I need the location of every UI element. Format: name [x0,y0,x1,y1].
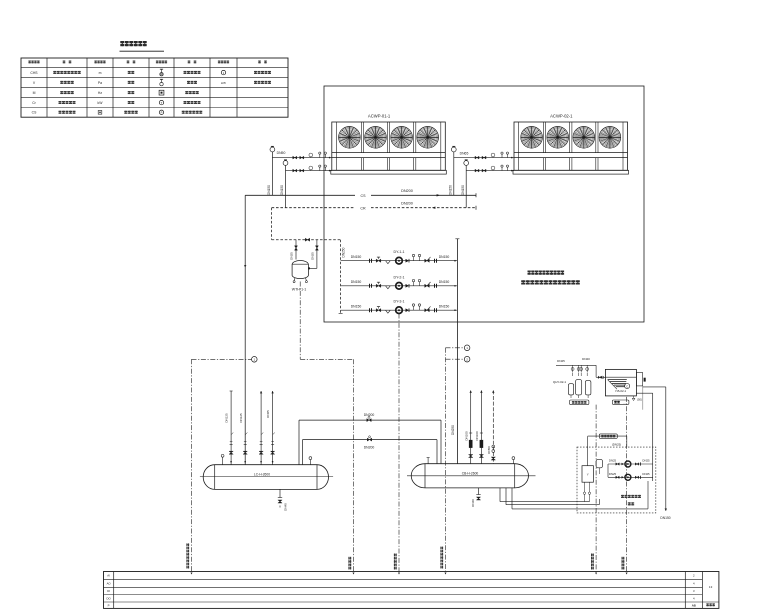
svg-text:DN200: DN200 [364,445,375,449]
tank1 gauge stub right [309,460,311,465]
pump branch DY-3-1 [341,309,458,311]
svg-text:LC-H-2600: LC-H-2600 [254,472,270,476]
makeup pipe 3 from tank2 [511,488,513,509]
pump DY-2-1 [396,283,403,290]
makeup pump BP-2 impeller [625,474,631,480]
pump DY-3-1 discharge fittings [406,308,410,312]
ACWP-02-1 fans [521,127,543,149]
tank1 riser 2 from CS main [243,451,247,454]
svg-text:DN250: DN250 [451,425,455,435]
tank2 vent stub left [427,458,429,464]
roof plant boundary box [324,86,644,322]
ACWP-01-1 fans [339,127,361,149]
air vent V4 unit2 return [465,159,468,161]
svg-text:Pa: Pa [98,81,102,85]
svg-text:DN50: DN50 [487,446,491,454]
ACWP-01-1 base slab [331,170,447,174]
svg-text:DN25: DN25 [557,359,565,363]
svg-text:DN150: DN150 [439,255,450,259]
svg-text:DI: DI [107,589,110,593]
svg-text:AB: AB [692,604,696,608]
svg-text:DN150: DN150 [660,516,670,520]
svg-text:DN150: DN150 [439,305,450,309]
legend header texts [28,61,39,64]
svg-text:DN25: DN25 [642,472,650,476]
tank2 riser 1 motor valve [470,390,472,463]
svg-text:DN150: DN150 [439,280,450,284]
air-cooled chiller ACWP-02-1 frame [514,122,628,170]
svg-text:DN200: DN200 [401,201,413,205]
CS chilled water supply main [245,194,355,196]
makeup pump branch BP-2 [608,476,653,478]
makeup pump unit boundary dotted box [577,447,656,513]
softener control line to strip [595,405,597,572]
svg-text:DN250: DN250 [342,247,346,257]
CR chilled water return main [272,207,355,209]
dosing cylinder in makeup unit [596,459,602,467]
svg-text:Y: Y [587,472,589,476]
svg-text:DN25: DN25 [609,472,617,476]
softener inlet pipe with valve pairs [556,364,596,366]
svg-text:AI: AI [107,574,110,578]
svg-text:LPh: LPh [221,81,227,85]
svg-text:DN25: DN25 [311,252,315,260]
pump group status control line [398,314,400,572]
control drop arrow 6 [626,573,628,575]
softener cylinder 2 [576,380,582,395]
unit2 return branch pipe [466,170,514,172]
pump DY-2-1 discharge fittings [406,284,410,288]
DDC strip columns [113,572,115,609]
unit1 return branch pipe [286,170,332,172]
svg-text:DN150: DN150 [267,185,271,195]
air-cooled chiller ACWP-01-1 frame [332,122,446,170]
tank drain funnel symbol [633,396,635,398]
water level symbol [608,379,627,381]
legend names col6 [184,71,201,74]
pump branch DY-2-1 [341,285,458,287]
expansion tank right nozzle [308,267,310,269]
legend table frame [21,58,288,117]
svg-text:DN65: DN65 [266,410,270,418]
svg-text:DN40: DN40 [284,503,288,511]
wire vent3 drop to CS main [453,152,455,195]
svg-text:DN150: DN150 [351,305,362,309]
svg-text:ACWP-02-1: ACWP-02-1 [550,114,573,119]
pump DY-1-1 [396,257,403,264]
tank overflow grey stub [642,386,644,410]
svg-text:Hz: Hz [98,91,102,95]
svg-text:DN150: DN150 [461,185,465,195]
wire vent2 drop to CR main [285,165,287,207]
tank side panel [636,373,642,386]
expansion tank drain control line to strip [299,282,301,360]
wire vent4 drop to CR main [465,165,467,207]
svg-text:DN125: DN125 [239,413,243,423]
legend symbols col5 [161,69,163,73]
pump suction header [340,240,342,314]
expansion tank legs [293,278,296,281]
tank1 riser 1 [230,391,232,465]
unit1 supply branch pipe [272,157,331,159]
valve on return header [305,238,309,241]
tank name plate [612,400,629,404]
water meter plate [599,434,617,438]
tank1 vent stub left [222,457,224,464]
expansion tank feed pipe 2 [316,240,318,269]
softener to water tank pipe [595,365,597,377]
svg-text:DN150: DN150 [280,185,284,195]
svg-text:CR: CR [360,206,366,210]
control drop arrow 4 [445,573,447,575]
overflow pipe A to drain with arrow [643,386,666,388]
svg-text:DN100: DN100 [464,431,468,441]
float switch in tank [625,383,630,388]
DDC strip outer frame [104,572,719,609]
expansion tank feed pipe 1 [295,240,297,260]
air vent V2 unit1 return [284,159,287,161]
CR drop corner to pump suction [271,208,273,240]
DDC strip rows [104,578,703,580]
svg-text:DN150: DN150 [351,255,362,259]
makeup unit name label [621,495,641,498]
unit2 supply branch pipe [454,157,514,159]
svg-text:kW: kW [98,101,104,105]
svg-text:...: ... [623,402,625,405]
svg-text:CB-H-2600: CB-H-2600 [462,472,479,476]
pump DY-1-1 discharge fittings [406,259,410,263]
bridge pipe upper DN200 [299,419,441,421]
svg-text:DN20: DN20 [582,357,590,361]
pump DY-3-1 [396,307,403,314]
svg-text:DY-2-1: DY-2-1 [393,275,404,279]
makeup pump BP-1 impeller [625,461,631,467]
svg-text:WTH-1-1: WTH-1-1 [292,287,307,291]
air vent V3 unit2 supply [452,145,455,147]
tank1 riser 3 [260,391,262,465]
svg-text:P: P [161,111,163,115]
bridge pipe lower DN200 [303,439,438,441]
pump branch DY-1-1 [341,260,458,262]
svg-text:DN200: DN200 [401,189,413,193]
tank2 axis line [407,475,536,477]
note text line2 [521,280,580,284]
svg-text:CS: CS [32,111,37,115]
svg-text:DN40: DN40 [471,499,475,507]
svg-text:DN50: DN50 [277,151,286,155]
softener name plate [570,400,589,405]
tank2 riser 3 [492,390,494,463]
svg-text:DN100: DN100 [475,431,479,441]
note text line1 [528,271,565,275]
CS riser down to collector tank1 [244,195,246,464]
expansion tank WTH-1-1 [292,260,308,278]
pressure vessel in makeup unit [582,466,593,483]
makeup water tank Y-B-02-1 [605,369,636,396]
tank1 bottom drain valve [279,489,281,497]
svg-text:(DN25): (DN25) [612,443,621,447]
control drop arrow 1 [191,573,193,575]
svg-text:DN125: DN125 [225,413,229,423]
ACWP-02-1 base slab [513,170,629,174]
svg-text:DN25: DN25 [642,459,650,463]
makeup pipe 1 from tank2 [499,488,501,502]
control drop arrow 2 [353,573,355,575]
svg-text:DN25: DN25 [290,252,294,260]
sensor T2 on discharge header [464,345,470,351]
air vent V1 unit1 supply [271,145,274,147]
tank1 axis line [200,476,333,478]
tank outlet pipe B to makeup pumps [636,392,652,394]
softener cylinder 1 [569,384,574,395]
svg-text:C: C [626,384,628,388]
softener tank connection pipes down [570,395,572,398]
svg-text:CS: CS [361,194,367,198]
legend names col8 [254,71,271,74]
temperature sensor T1 on CS riser [252,357,258,363]
collector tank CB-H-2600 shell [411,464,528,488]
pressure vessel drain stubs [584,482,586,492]
makeup pump branch BP-1 [608,463,653,465]
control drop arrow 3 [398,573,400,575]
svg-text:m: m [99,71,102,75]
legend symbols col7 [221,70,225,74]
svg-text:DN150: DN150 [448,185,452,195]
title 空调自控说明 [120,41,146,46]
svg-text:(50): (50) [637,398,642,402]
svg-text:ACWP-01-1: ACWP-01-1 [368,114,391,119]
svg-text:CHS: CHS [30,71,38,75]
tank2 riser 2 motor valve [480,390,482,463]
makeup pump suction drop [607,464,609,477]
svg-text:P: P [108,603,110,607]
svg-text:DN25: DN25 [609,459,617,463]
svg-text:13: 13 [709,585,713,589]
control drop arrow 5 [595,573,597,575]
control wire from T1 to DDC strip [192,358,252,360]
softener cylinder 3 [585,381,591,395]
makeup pipe 2 from tank2 [505,488,507,505]
pump discharge header [456,239,458,464]
svg-text:DN150: DN150 [351,280,362,284]
control wires from discharge sensors [446,347,465,349]
collector tank LC-H-2600 shell [203,465,328,490]
svg-text:Y-B-02-1: Y-B-02-1 [615,389,627,393]
tank1 riser 4 [272,391,274,465]
tank2 gauge stub right [512,460,514,464]
wire vent1 drop to CS main [271,152,273,195]
tank2 bottom drain valve [478,488,480,495]
svg-text:QHY-02-1: QHY-02-1 [553,380,567,384]
svg-text:DY-1-1: DY-1-1 [393,250,404,254]
svg-text:DN65: DN65 [460,152,469,156]
svg-text:M: M [33,91,36,95]
water meter pipe above box [587,436,589,466]
sensor P2 on discharge header [464,356,470,362]
tank level control line to strip [626,397,628,572]
svg-text:DY-3-1: DY-3-1 [393,300,404,304]
